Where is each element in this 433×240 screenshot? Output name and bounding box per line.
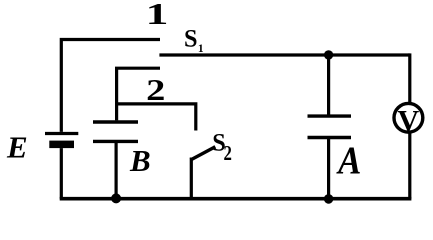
wire: right rail bottom segment xyxy=(408,133,411,199)
switch S2 blade xyxy=(191,147,216,160)
voltmeter V xyxy=(394,103,423,137)
wire: right rail top segment xyxy=(408,53,411,102)
capacitor B xyxy=(93,122,138,141)
wire: capacitor A bottom to bottom rail xyxy=(327,138,330,199)
svg-text:V: V xyxy=(398,105,420,138)
wire: feed to switch S2 fixed contact xyxy=(117,104,196,131)
battery E xyxy=(45,134,78,199)
wire: junction down to capacitor A xyxy=(327,55,330,115)
svg-text:S: S xyxy=(184,25,197,52)
node: junction dot top of capacitor A branch xyxy=(324,50,333,59)
svg-text:A: A xyxy=(336,138,361,181)
svg-text:B: B xyxy=(129,143,151,178)
switch S1 blade wire to top-right xyxy=(159,53,409,56)
wire: top-left from battery top to contact 1 xyxy=(61,40,160,132)
wire: contact 2 branch (from node above capacitor B) xyxy=(117,68,160,120)
svg-text:2: 2 xyxy=(224,143,232,166)
wire: bottom rail xyxy=(60,197,412,201)
node: junction dot at B bottom xyxy=(111,193,121,203)
svg-text:E: E xyxy=(6,129,28,164)
svg-text:1: 1 xyxy=(198,43,204,55)
svg-text:1: 1 xyxy=(146,0,169,31)
svg-text:2: 2 xyxy=(146,72,165,107)
node: junction dot at A bottom xyxy=(324,194,334,204)
capacitor A xyxy=(308,116,352,137)
wire: S2 pivot down to bottom rail xyxy=(190,158,193,199)
wire: capacitor B bottom to bottom rail xyxy=(114,141,117,198)
